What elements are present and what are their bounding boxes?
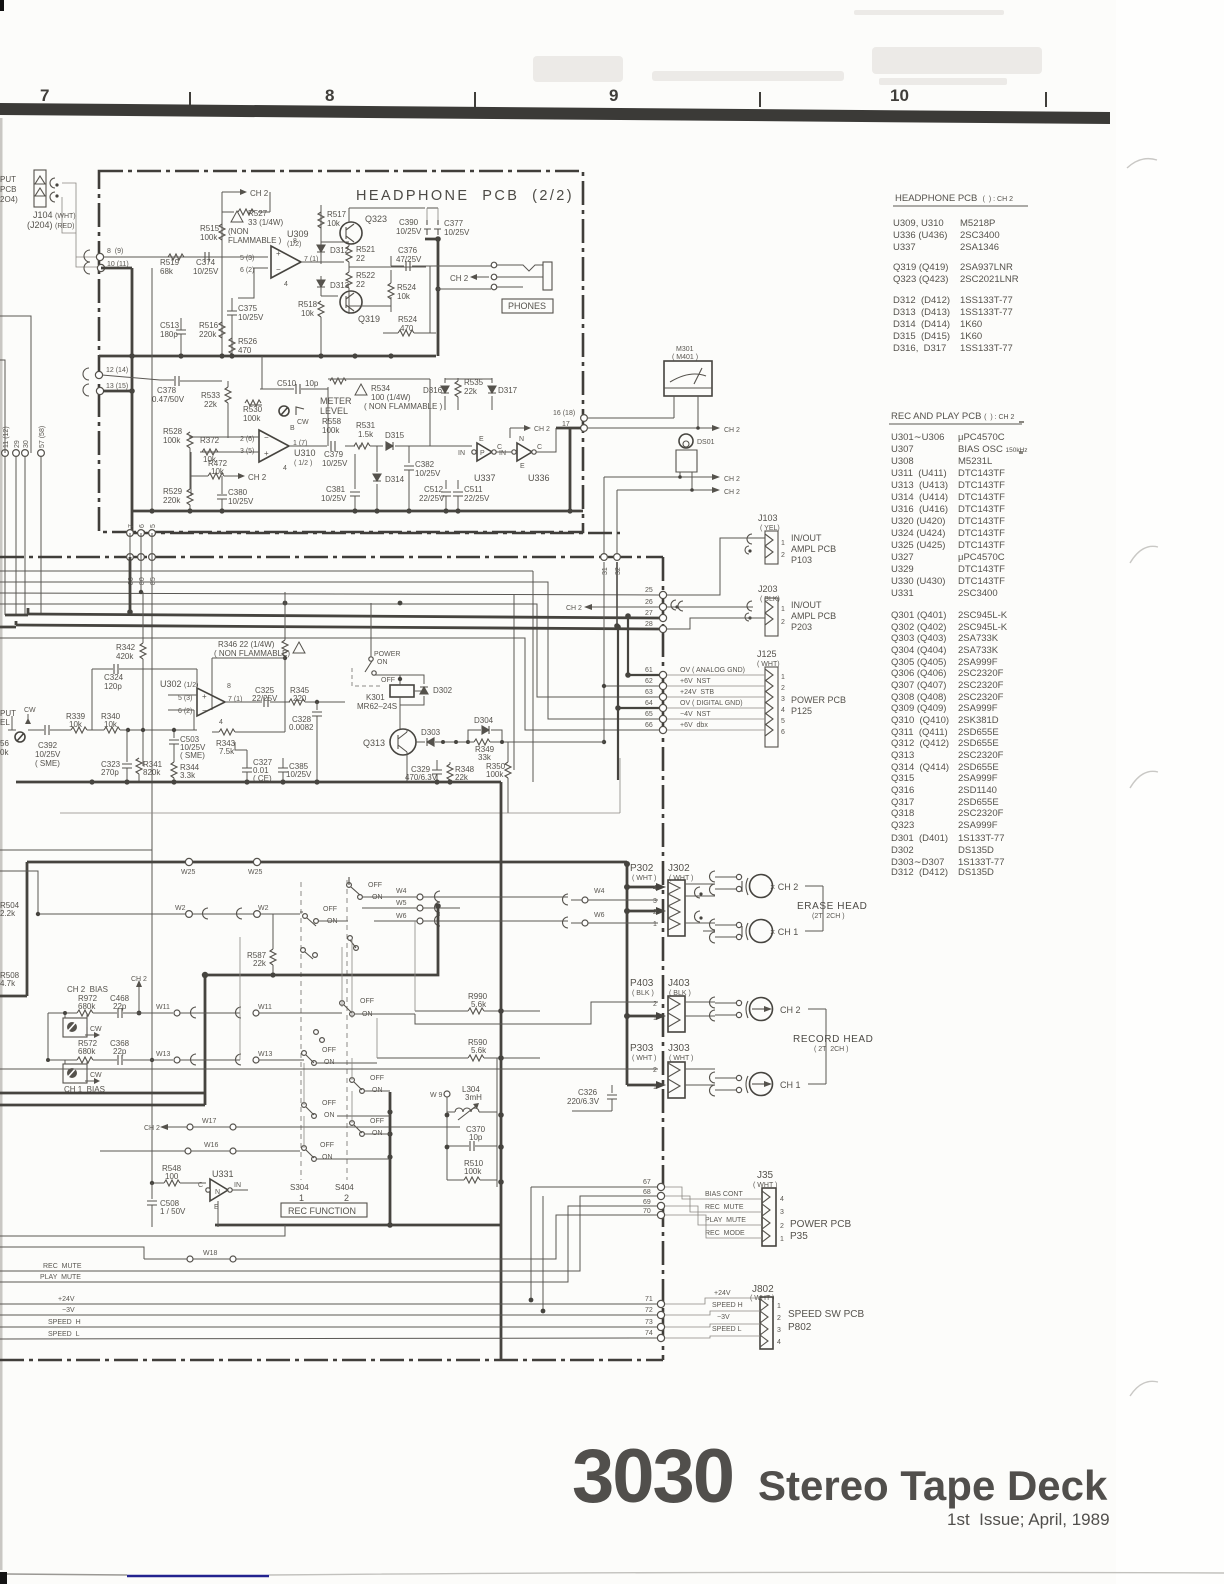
thick line y626 pin28 <box>16 625 660 629</box>
switch W11 row <box>340 998 415 1018</box>
wire chain C pin25 <box>0 593 660 595</box>
top-left corner mark <box>0 0 4 11</box>
svg-text:D303: D303 <box>421 728 441 737</box>
W18 line <box>144 1215 657 1262</box>
svg-text:R516: R516 <box>199 321 219 330</box>
svg-text:P35: P35 <box>790 1231 808 1242</box>
svg-text:70: 70 <box>643 1208 651 1215</box>
svg-text:65: 65 <box>645 711 653 718</box>
svg-text:ON: ON <box>324 1112 335 1119</box>
svg-text:IN: IN <box>234 1182 241 1189</box>
capacitor C368 <box>93 1039 173 1065</box>
svg-text:10/25V: 10/25V <box>322 459 348 468</box>
svg-text:10/25V: 10/25V <box>396 227 422 236</box>
svg-text:U311 (U411): U311 (U411) <box>891 468 947 479</box>
svg-text:6: 6 <box>139 524 146 528</box>
ground bus y782 <box>16 781 501 784</box>
dash-dot line below hpcb <box>132 532 620 535</box>
erase head CH2 <box>685 871 798 898</box>
svg-text:M5231L: M5231L <box>958 456 992 467</box>
resistor R348 <box>447 762 475 782</box>
svg-text:3mH: 3mH <box>465 1093 482 1102</box>
resistor R516 <box>199 321 225 339</box>
svg-text:CH 2: CH 2 <box>724 489 740 496</box>
svg-text:J103: J103 <box>758 513 778 523</box>
jack sleeve <box>543 262 552 290</box>
svg-text:D315 (D415): D315 (D415) <box>893 331 950 342</box>
svg-text:IN/OUT: IN/OUT <box>791 533 822 543</box>
capacitor C374 <box>193 252 219 276</box>
twist arcs 12 13 <box>83 368 89 396</box>
svg-text:8: 8 <box>293 238 297 245</box>
svg-text:10/25V: 10/25V <box>35 750 61 759</box>
svg-text:( 1/2 ): ( 1/2 ) <box>294 460 312 467</box>
svg-text:μPC4570C: μPC4570C <box>958 432 1005 443</box>
op-amp U310 <box>240 425 316 472</box>
svg-text:P303: P303 <box>630 1043 654 1054</box>
svg-text:OV ( DIGITAL GND): OV ( DIGITAL GND) <box>680 700 743 707</box>
svg-text:61: 61 <box>645 667 653 674</box>
switch row3 small <box>348 936 359 951</box>
capacitor C382 <box>404 446 441 511</box>
resistor R524 10k <box>388 270 417 312</box>
svg-text:1S133T-77: 1S133T-77 <box>958 833 1004 844</box>
svg-text:SPEED H: SPEED H <box>48 1319 81 1326</box>
svg-text:2: 2 <box>777 1315 781 1322</box>
resistor R531 <box>354 421 376 449</box>
node 68 <box>643 1189 665 1200</box>
svg-text:( WHT ): ( WHT ) <box>632 1055 656 1062</box>
svg-text:2SD1140: 2SD1140 <box>958 785 997 796</box>
thick vert x436 <box>425 239 438 356</box>
gang dashed lines <box>301 880 347 1180</box>
svg-text:Q319 (Q419): Q319 (Q419) <box>893 262 948 273</box>
svg-text:W17: W17 <box>202 1118 217 1125</box>
svg-text:U336 (U436): U336 (U436) <box>893 230 947 241</box>
svg-text:3: 3 <box>780 1209 784 1216</box>
svg-text:P125: P125 <box>791 706 812 716</box>
svg-text:−3V: −3V <box>62 1307 75 1314</box>
ON row stubs to riser <box>317 1091 390 1159</box>
svg-text:P: P <box>480 450 485 457</box>
svg-text:3.3k: 3.3k <box>180 771 196 780</box>
wire 17 right + CH2 arrow <box>587 425 740 434</box>
capacitor C325 <box>252 686 278 707</box>
svg-text:C392: C392 <box>38 741 58 750</box>
svg-text:OFF: OFF <box>381 677 395 684</box>
svg-text:DTC143TF: DTC143TF <box>958 516 1005 527</box>
svg-text:4: 4 <box>780 1196 784 1203</box>
svg-text:Q309 (Q409): Q309 (Q409) <box>891 703 946 714</box>
HEADPHONE PCB dash-dot border <box>99 171 583 532</box>
record head CH1 <box>685 1069 801 1096</box>
svg-text:OFF: OFF <box>322 1047 336 1054</box>
misc matrix verticals <box>342 921 415 1058</box>
J35 label <box>753 1170 777 1189</box>
erase head label <box>797 901 867 920</box>
svg-text:3: 3 <box>777 1327 781 1334</box>
svg-text:R534: R534 <box>371 384 391 393</box>
svg-text:U337: U337 <box>893 242 916 253</box>
svg-text:CH 2 BIAS: CH 2 BIAS <box>67 985 108 994</box>
twist arc w27 <box>671 600 679 610</box>
svg-text:180p: 180p <box>160 330 178 339</box>
svg-text:R517: R517 <box>327 210 347 219</box>
svg-text:CW: CW <box>90 1072 102 1079</box>
inverter U331 <box>198 1169 248 1211</box>
svg-text:63: 63 <box>645 689 653 696</box>
diode D315 <box>370 431 435 450</box>
svg-text:4: 4 <box>653 885 657 892</box>
svg-text:D301 (D401): D301 (D401) <box>891 833 948 844</box>
svg-text:1K60: 1K60 <box>960 331 982 342</box>
svg-text:OFF: OFF <box>323 906 337 913</box>
capacitor C512 <box>419 480 451 511</box>
svg-text:CH 2: CH 2 <box>534 426 550 433</box>
resistor R341 <box>136 758 163 782</box>
resistor R345 <box>289 686 345 705</box>
svg-text:66: 66 <box>645 722 653 729</box>
svg-text:57 (58): 57 (58) <box>39 426 46 448</box>
svg-text:E: E <box>520 463 525 470</box>
svg-text:470: 470 <box>238 346 252 355</box>
pot output level <box>0 707 36 757</box>
bias cont feeder <box>531 1187 657 1311</box>
svg-text:W2: W2 <box>258 905 269 912</box>
svg-text:Q313: Q313 <box>363 738 385 748</box>
svg-text:Q323: Q323 <box>365 214 387 224</box>
svg-text:Q314 (Q414): Q314 (Q414) <box>891 762 949 773</box>
wire chain D pin63 <box>0 604 660 697</box>
svg-text:U308: U308 <box>891 456 914 467</box>
svg-text:W16: W16 <box>204 1142 219 1149</box>
svg-text:420k: 420k <box>116 652 134 661</box>
svg-text:J203: J203 <box>758 584 778 594</box>
svg-text:72: 72 <box>645 1307 653 1314</box>
thick riser x390 <box>389 1092 392 1225</box>
capacitor C510 <box>260 379 328 394</box>
svg-text:J302: J302 <box>668 863 690 874</box>
svg-text:C382: C382 <box>415 460 435 469</box>
thick bottom bus sw <box>215 1224 501 1227</box>
svg-text:8 (9): 8 (9) <box>107 248 123 255</box>
svg-text:HEADPHONE PCB (2/2): HEADPHONE PCB (2/2) <box>356 188 574 204</box>
diode D313 <box>317 276 350 296</box>
W16 line <box>100 1142 300 1154</box>
svg-text:220/6.3V: 220/6.3V <box>567 1097 600 1106</box>
svg-text:2: 2 <box>781 552 785 559</box>
bottom edge light line <box>269 1572 1224 1575</box>
phone jack symbol <box>497 265 543 289</box>
svg-text:J802: J802 <box>752 1284 774 1295</box>
switch set row2 <box>300 906 348 926</box>
capacitor C511 <box>453 480 490 511</box>
capacitor C380 <box>217 476 254 511</box>
connector J303 <box>653 1062 685 1098</box>
svg-text:FLAMMABLE ): FLAMMABLE ) <box>228 236 282 245</box>
bus junction dots <box>129 236 440 358</box>
svg-text:5 (3): 5 (3) <box>178 695 192 702</box>
bus y511 <box>132 510 583 513</box>
W4 W6 jumpers right <box>563 888 605 928</box>
wire vertical feedback <box>222 192 270 356</box>
svg-text:C379: C379 <box>324 450 344 459</box>
svg-text:U324 (U424): U324 (U424) <box>891 528 945 539</box>
svg-text:D302: D302 <box>433 686 453 695</box>
capacitor C376 <box>391 246 436 271</box>
svg-text:R531: R531 <box>356 421 376 430</box>
svg-text:D316: D316 <box>423 386 443 395</box>
svg-text:( M401 ): ( M401 ) <box>672 354 698 361</box>
svg-text:C376: C376 <box>398 246 418 255</box>
svg-text:270p: 270p <box>101 768 119 777</box>
svg-text:EL: EL <box>0 718 10 727</box>
node 74 <box>645 1330 665 1342</box>
svg-text:+6V dbx: +6V dbx <box>680 722 708 729</box>
node 72 <box>645 1307 665 1319</box>
svg-text:C377: C377 <box>444 219 464 228</box>
svg-text:+: + <box>276 249 281 258</box>
svg-text:D312 (D412): D312 (D412) <box>891 867 948 878</box>
diode D317 <box>488 378 518 410</box>
svg-text:SPEED L: SPEED L <box>48 1331 80 1338</box>
diode D304 <box>466 716 502 744</box>
svg-text:U325 (U425): U325 (U425) <box>891 540 945 551</box>
feeder dots <box>624 861 630 1019</box>
svg-text:C324: C324 <box>104 673 124 682</box>
ruler ticks <box>190 92 1046 107</box>
capacitor C370 <box>447 1125 497 1151</box>
svg-text:IN: IN <box>499 450 506 457</box>
svg-text:100 (1/4W): 100 (1/4W) <box>371 393 411 402</box>
svg-text:D316, D317: D316, D317 <box>893 343 946 354</box>
capacitor C328 <box>289 702 322 782</box>
svg-text:Q323: Q323 <box>891 820 914 831</box>
W11 jumpers <box>156 1004 342 1018</box>
svg-text:62: 62 <box>645 678 653 685</box>
svg-text:16 (18): 16 (18) <box>553 410 575 417</box>
svg-text:CH 2: CH 2 <box>724 476 740 483</box>
capacitor C390 C377 <box>396 208 470 237</box>
svg-text:85: 85 <box>150 577 157 585</box>
resistor R472 + CH2 arrow <box>191 452 267 496</box>
svg-text:100: 100 <box>165 1172 179 1181</box>
page curl arcs right edge <box>1127 159 1158 1396</box>
svg-text:1: 1 <box>781 674 785 681</box>
capacitor C513 <box>160 318 186 356</box>
svg-text:W11: W11 <box>258 1004 272 1011</box>
svg-text:SPEED H: SPEED H <box>712 1302 743 1309</box>
svg-text:80: 80 <box>139 577 146 585</box>
resistor R340 <box>101 712 197 733</box>
svg-text:U314 (U414): U314 (U414) <box>891 492 948 503</box>
svg-text:R527: R527 <box>248 209 268 218</box>
capacitor C392 <box>28 725 71 768</box>
record head bracket <box>808 1009 826 1084</box>
svg-text:Q319: Q319 <box>358 314 380 324</box>
svg-text:( BLK): ( BLK) <box>760 596 780 603</box>
svg-text:D315: D315 <box>385 431 405 440</box>
svg-text:DS01: DS01 <box>697 439 715 446</box>
svg-text:D312 (D412): D312 (D412) <box>893 295 950 306</box>
svg-text:C512: C512 <box>424 485 444 494</box>
resistor R524 470 <box>383 315 436 336</box>
svg-text:2SC2320F: 2SC2320F <box>958 692 1004 703</box>
pot R558 meter level <box>279 396 352 435</box>
svg-text:R524: R524 <box>398 315 418 324</box>
svg-text:( BLK ): ( BLK ) <box>632 990 654 997</box>
svg-text:W25: W25 <box>181 869 196 876</box>
resistor R350 <box>486 742 511 813</box>
junction dots borders <box>127 353 631 744</box>
dust specks <box>1019 421 1024 423</box>
wire P403 pin2 <box>415 1002 658 1024</box>
svg-text:10k: 10k <box>69 720 83 729</box>
svg-text:U307: U307 <box>891 444 914 455</box>
svg-text:31: 31 <box>602 567 609 575</box>
buffer U337 <box>458 436 502 483</box>
svg-text:( WHT ): ( WHT ) <box>669 1055 693 1062</box>
svg-text:2: 2 <box>344 1193 349 1203</box>
svg-text:73: 73 <box>645 1319 653 1326</box>
record head label <box>793 1034 874 1053</box>
svg-text:3: 3 <box>781 696 785 703</box>
svg-text:6 (2): 6 (2) <box>240 267 254 274</box>
J35 stepped wires <box>665 1187 762 1238</box>
svg-text:0.0082: 0.0082 <box>289 723 314 732</box>
svg-text:U331: U331 <box>212 1169 234 1179</box>
long vertical x152 <box>0 849 152 851</box>
feeder arrowheads <box>656 883 666 1089</box>
bus dots <box>89 779 452 784</box>
CH2 arrow lamp2 <box>617 487 740 496</box>
W13 jumpers <box>156 1051 304 1065</box>
svg-text:ON: ON <box>377 659 388 666</box>
svg-text:D313 (D413): D313 (D413) <box>893 307 950 318</box>
svg-text:4.7k: 4.7k <box>0 979 16 988</box>
connector J203 <box>758 584 836 636</box>
svg-text:1: 1 <box>299 1193 304 1203</box>
svg-text:D314 (D414): D314 (D414) <box>893 319 950 330</box>
thick bus sw <box>0 906 438 1105</box>
resistor R548 <box>150 1164 206 1186</box>
svg-text:5 (3): 5 (3) <box>240 255 254 262</box>
svg-text:2SK381D: 2SK381D <box>958 715 999 726</box>
connector J104 <box>34 170 59 207</box>
svg-text:470: 470 <box>400 324 414 333</box>
svg-text:OFF: OFF <box>320 1142 334 1149</box>
long mute wires <box>0 1196 657 1282</box>
svg-text:W4: W4 <box>396 888 407 895</box>
svg-text:−: − <box>264 433 269 442</box>
svg-text:C326: C326 <box>578 1088 598 1097</box>
svg-text:U309: U309 <box>287 229 309 239</box>
svg-text:8: 8 <box>227 683 231 690</box>
svg-text:Q307 (Q407): Q307 (Q407) <box>891 680 946 691</box>
svg-text:10p: 10p <box>305 379 319 388</box>
svg-text:(NON: (NON <box>228 227 249 236</box>
svg-text:D317: D317 <box>498 386 518 395</box>
wire opamp out <box>238 205 344 298</box>
capacitor C378 <box>102 375 222 404</box>
svg-text:W6: W6 <box>594 912 605 919</box>
svg-text:2: 2 <box>653 909 657 916</box>
svg-text:220k: 220k <box>163 496 181 505</box>
resistor R528 <box>163 427 193 448</box>
W9 L304 <box>430 1085 497 1120</box>
svg-text:5: 5 <box>150 524 157 528</box>
svg-text:J303: J303 <box>668 1043 690 1054</box>
svg-text:−3V: −3V <box>717 1314 730 1321</box>
svg-text:22k: 22k <box>464 387 478 396</box>
svg-text:Q305 (Q405): Q305 (Q405) <box>891 657 946 668</box>
svg-text:U331: U331 <box>891 588 914 599</box>
phones jack circles <box>491 262 497 290</box>
twist arc w26 <box>678 601 683 611</box>
wire chain H pin66 <box>0 638 660 730</box>
svg-text:Q315: Q315 <box>891 773 914 784</box>
svg-text:S304: S304 <box>290 1183 309 1192</box>
svg-text:Q306 (Q406): Q306 (Q406) <box>891 668 946 679</box>
svg-text:2SD655E: 2SD655E <box>958 797 999 808</box>
J802 label <box>750 1284 774 1302</box>
svg-text:AMPL PCB: AMPL PCB <box>791 611 836 621</box>
svg-text:OV ( ANALOG GND): OV ( ANALOG GND) <box>680 667 745 674</box>
svg-text:27: 27 <box>645 610 653 617</box>
svg-text:10/25V: 10/25V <box>228 497 254 506</box>
resistor R587 <box>247 914 276 978</box>
svg-text:1: 1 <box>653 1015 657 1022</box>
svg-text:CH 2: CH 2 <box>780 1005 801 1015</box>
svg-text:S404: S404 <box>335 1183 354 1192</box>
svg-text:1SS133T-77: 1SS133T-77 <box>960 295 1013 306</box>
nested corner wires bottom left <box>0 1225 285 1259</box>
svg-text:1SS133T-77: 1SS133T-77 <box>960 307 1013 318</box>
node circles row <box>2 450 45 457</box>
svg-text:RECORD HEAD: RECORD HEAD <box>793 1034 874 1045</box>
svg-text:+6V NST: +6V NST <box>680 678 711 685</box>
thick W25 line <box>27 861 627 864</box>
wires 61-66 to J125 <box>663 675 765 730</box>
svg-text:DTC143TF: DTC143TF <box>958 528 1005 539</box>
switch set W4 row <box>347 877 383 901</box>
svg-text:R558: R558 <box>322 417 342 426</box>
svg-text:7.5k: 7.5k <box>219 747 235 756</box>
connector J103 <box>758 513 836 565</box>
svg-text:2: 2 <box>781 685 785 692</box>
svg-text:U316 (U416): U316 (U416) <box>891 504 948 515</box>
capacitor C468 <box>93 994 173 1018</box>
svg-text:1: 1 <box>781 606 785 613</box>
svg-text:OFF: OFF <box>368 882 382 889</box>
svg-text:32: 32 <box>615 567 622 575</box>
svg-text:1.5k: 1.5k <box>358 430 374 439</box>
svg-text:CH 2: CH 2 <box>566 605 582 612</box>
svg-text:13 (15): 13 (15) <box>106 383 128 390</box>
long speed wires <box>0 1304 657 1339</box>
thin line y813 <box>60 758 620 813</box>
svg-text:LEVEL: LEVEL <box>320 406 348 416</box>
wires W4 W6 into J302 <box>503 897 658 923</box>
svg-text:10k: 10k <box>327 219 341 228</box>
svg-text:68: 68 <box>643 1189 651 1196</box>
CH2 W17 line <box>144 1118 460 1132</box>
svg-text:1: 1 <box>653 921 657 928</box>
left frame wires <box>0 316 31 453</box>
capacitor C329 <box>405 760 442 782</box>
svg-text:2SC945L-K: 2SC945L-K <box>958 622 1008 633</box>
svg-text:2SA1346: 2SA1346 <box>960 242 999 253</box>
